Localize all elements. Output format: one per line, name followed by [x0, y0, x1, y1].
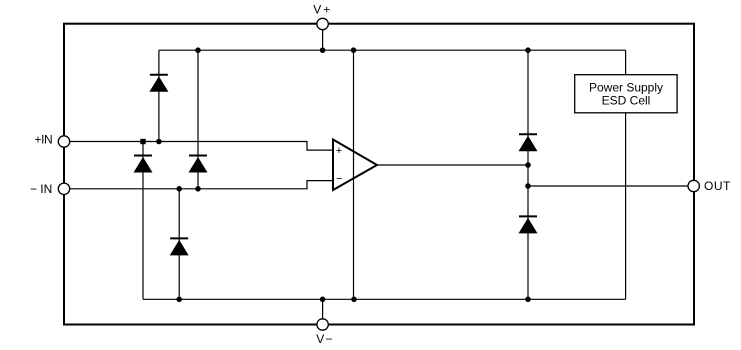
svg-text:+: + [336, 145, 342, 157]
wire: V- internal rail (bottom) [143, 298, 626, 300]
terminal V+ [317, 18, 328, 29]
Power Supply ESD Cell block [575, 75, 677, 113]
svg-text:Power Supply: Power Supply [589, 80, 663, 94]
svg-text:ESD Cell: ESD Cell [602, 93, 651, 107]
junction: D4 at -IN line [176, 186, 182, 192]
wire: ESD cell to V- rail [625, 113, 627, 299]
junction: op-amp supply at V+ rail [351, 47, 357, 53]
diode D6 (V- to output) [519, 216, 538, 233]
svg-text:V−: V− [316, 332, 333, 346]
svg-text:− IN: − IN [30, 182, 52, 196]
wire: ESD cell to V+ rail [625, 50, 627, 75]
junction: output at D5 anode [525, 162, 531, 168]
terminal V- [317, 319, 328, 330]
junction: OUT line at D6 cathode [525, 183, 531, 189]
diode D1 (+IN to V+) [149, 75, 168, 92]
diode D2 (-IN to V+) [189, 156, 208, 173]
wire: -IN input line [64, 181, 333, 189]
wire: D4 branch (V- rail to -IN) [178, 189, 180, 299]
diode D4 (V- to -IN) [170, 238, 189, 255]
junction: V- stub at rail [320, 297, 326, 303]
wire: D2 branch (-IN to V+ rail) [197, 50, 199, 189]
junction: D1 at +IN line [156, 139, 162, 145]
wire: D1 branch (+IN to V+ rail) [158, 50, 160, 141]
junction: D5 at V+ rail [525, 47, 531, 53]
terminal -IN [58, 183, 69, 194]
wire: V+ internal rail (top) [159, 49, 626, 51]
svg-text:V+: V+ [313, 3, 332, 17]
diode D3 (V- to +IN) [134, 156, 153, 173]
svg-text:−: − [336, 173, 342, 185]
terminal +IN [58, 136, 69, 147]
diode D5 (output to V+) [519, 134, 538, 151]
wire: V+ terminal stub [322, 24, 324, 50]
svg-text:+IN: +IN [34, 133, 52, 147]
wire: +IN input line [64, 142, 333, 151]
op-amp U1 [333, 140, 377, 191]
junction: D2 at -IN line [195, 186, 201, 192]
IC package boundary [64, 24, 694, 325]
junction: D2 at V+ rail [195, 47, 201, 53]
wire: output ESD branch (D5/D6 vertical) [527, 50, 529, 299]
wire: OUT line to terminal [528, 185, 694, 187]
svg-text:OUT: OUT [704, 179, 731, 193]
terminal OUT [688, 180, 699, 191]
wire: op-amp output [377, 164, 528, 166]
junction: op-amp supply at V- rail [351, 297, 357, 303]
wire: op-amp supply vertical [353, 50, 355, 299]
junction: D3 at +IN line (square) [140, 139, 145, 144]
wire: D3 branch (V- rail to +IN) [142, 142, 144, 300]
wire: V- terminal stub [322, 299, 324, 324]
junction: D6 at V- rail [525, 297, 531, 303]
junction: V+ stub at rail [320, 47, 326, 53]
junction: D4 at V- rail [176, 297, 182, 303]
